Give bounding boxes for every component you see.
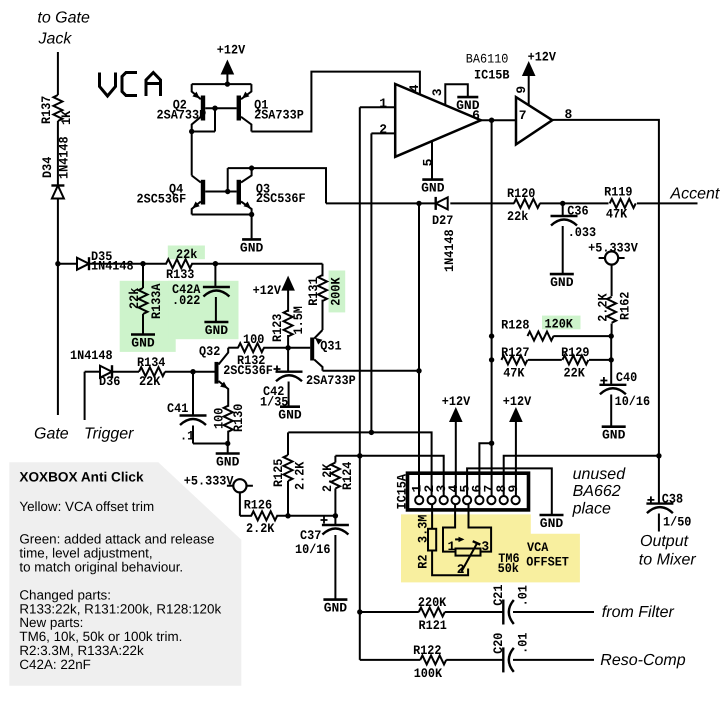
resistor R119 47K	[610, 199, 636, 208]
svg-text:GND: GND	[240, 240, 264, 255]
svg-text:3: 3	[430, 88, 445, 96]
green highlight 120K (R128 value)	[542, 316, 581, 330]
svg-text:R119: R119	[604, 185, 633, 200]
resistor R129 22K	[528, 359, 562, 361]
svg-text:R122: R122	[413, 643, 442, 658]
svg-text:R133:22k, R131:200k, R128:120k: R133:22k, R131:200k, R128:120k	[19, 601, 221, 616]
resistor R127 47K	[501, 355, 527, 364]
svg-text:+12V: +12V	[503, 394, 532, 409]
svg-text:GND: GND	[205, 323, 229, 338]
svg-text:R129: R129	[561, 345, 590, 360]
svg-text:time, level adjustment,: time, level adjustment,	[19, 546, 152, 561]
svg-text:Reso-Comp: Reso-Comp	[600, 652, 685, 669]
svg-text:R133: R133	[166, 267, 195, 282]
capacitor C21 .01	[502, 600, 504, 625]
svg-text:+5.333V: +5.333V	[184, 474, 234, 489]
svg-text:R126: R126	[244, 498, 273, 513]
wire Q31 base node	[288, 347, 310, 349]
VCA logo	[100, 73, 161, 97]
svg-text:2.2K: 2.2K	[293, 461, 308, 490]
resistor R131 200K	[322, 264, 324, 277]
wire op-amp pin 1 net vertical	[359, 107, 361, 660]
green highlight C42A	[168, 281, 238, 339]
resistor R162 2.2K	[607, 297, 616, 323]
pin 8 output wire to output rail	[552, 120, 659, 503]
svg-text:22K: 22K	[139, 374, 160, 389]
svg-text:3.3M: 3.3M	[416, 514, 431, 543]
trimmer wiper arrow	[462, 543, 478, 572]
svg-text:1N4148: 1N4148	[442, 229, 457, 272]
diode D35 1N4148	[77, 258, 89, 270]
svg-text:GND: GND	[540, 516, 564, 531]
wire trimmer terminal 1 to connector pin 4	[443, 504, 456, 552]
svg-text:D36: D36	[99, 374, 120, 389]
wire trimmer terminal 3 to connector pin 5	[469, 504, 492, 552]
svg-text:50k: 50k	[498, 561, 519, 576]
svg-text:1N4148: 1N4148	[91, 259, 134, 274]
svg-text:2SA733P: 2SA733P	[306, 373, 356, 388]
svg-text:R123: R123	[270, 313, 285, 342]
svg-text:1.5M: 1.5M	[291, 306, 306, 335]
svg-text:GND: GND	[131, 336, 155, 351]
svg-text:Jack: Jack	[38, 31, 73, 48]
svg-text:Changed parts:: Changed parts:	[19, 587, 111, 602]
ground R133A	[131, 333, 155, 336]
resistor R126 2.2K	[240, 515, 252, 517]
svg-text:R134: R134	[137, 355, 166, 370]
svg-text:47K: 47K	[606, 207, 627, 222]
pin 5 wire and ground	[431, 141, 433, 179]
svg-text:Gate: Gate	[34, 426, 69, 443]
wire R134 to Q32 base	[165, 371, 215, 373]
svg-text:New parts:: New parts:	[19, 615, 83, 630]
svg-text:.01: .01	[516, 585, 531, 606]
capacitor C40 10/16	[610, 360, 612, 385]
svg-text:OFFSET: OFFSET	[526, 554, 569, 569]
ground C36	[550, 273, 574, 276]
wire connector pin 2 horizontal	[288, 432, 431, 496]
svg-text:XOXBOX Anti Click: XOXBOX Anti Click	[19, 470, 144, 485]
svg-text:2.2K: 2.2K	[596, 293, 611, 322]
svg-text:200K: 200K	[329, 277, 344, 306]
wire Q3 collector to accent line	[228, 168, 326, 203]
wire gate net vertical	[57, 52, 59, 95]
svg-text:C21: C21	[491, 584, 506, 605]
svg-text:Trigger: Trigger	[84, 426, 134, 443]
svg-text:C20: C20	[491, 632, 506, 653]
svg-text:R121: R121	[419, 618, 448, 633]
svg-text:.033: .033	[568, 225, 597, 240]
svg-text:GND: GND	[602, 428, 626, 443]
wire connector pin 3 horizontal	[335, 456, 443, 496]
svg-text:3: 3	[481, 539, 489, 554]
svg-text:9: 9	[514, 86, 529, 94]
svg-text:+12V: +12V	[253, 283, 282, 298]
svg-text:9: 9	[506, 485, 521, 493]
ground connector pin 5	[540, 514, 564, 517]
ground Q3 Q4 emitters	[251, 215, 253, 239]
op-amp U1 BA6110 IC15B	[395, 84, 481, 157]
svg-text:R125: R125	[271, 458, 286, 487]
wire Q3 Q4 emitter rail	[192, 214, 252, 216]
svg-text:1N4148: 1N4148	[57, 136, 72, 179]
pin 1 wire op-amp	[360, 106, 395, 108]
wire connector pin 8 to output rail	[504, 456, 659, 496]
svg-text:1: 1	[448, 539, 456, 554]
wire connector pin 6 to pin 7	[479, 443, 491, 496]
ground C40	[602, 425, 626, 428]
svg-text:120K: 120K	[545, 316, 574, 331]
svg-text:4: 4	[407, 84, 422, 92]
resistor R128 120K	[528, 332, 554, 341]
svg-text:BA6110: BA6110	[466, 52, 509, 67]
svg-text:to Mixer: to Mixer	[639, 552, 697, 569]
svg-text:R124: R124	[340, 461, 355, 490]
svg-text:2SC536F: 2SC536F	[256, 191, 306, 206]
svg-text:R162: R162	[618, 291, 633, 320]
ground C42	[280, 405, 300, 408]
wire Q31 collector	[323, 370, 420, 372]
svg-text:C40: C40	[616, 370, 637, 385]
yellow highlight VCA offset trim area	[401, 514, 580, 582]
wire Q1 Q2 base tie	[205, 107, 236, 109]
resistor R125 2.2K	[287, 432, 289, 455]
svg-text:.01: .01	[516, 632, 531, 653]
transistor Q1 2SA733P	[237, 96, 241, 121]
svg-text:BA662: BA662	[573, 483, 621, 500]
svg-text:R127: R127	[501, 345, 529, 360]
svg-text:D27: D27	[432, 213, 453, 228]
transistor Q3 2SC536F	[237, 180, 241, 205]
svg-text:R130: R130	[231, 403, 246, 432]
svg-text:2.2K: 2.2K	[320, 463, 335, 492]
svg-text:Q31: Q31	[320, 339, 341, 354]
svg-text:2SA733P: 2SA733P	[157, 107, 207, 122]
green highlight R133A	[120, 281, 176, 352]
capacitor C38 1/50	[646, 502, 673, 504]
svg-text:to Gate: to Gate	[37, 10, 90, 27]
wire D36 to R134	[112, 371, 140, 373]
transistor Q4 2SC536F	[201, 180, 205, 205]
note panel background	[9, 462, 241, 686]
pin 6 output wire	[481, 119, 516, 121]
svg-text:C42A: 22nF: C42A: 22nF	[19, 657, 90, 672]
svg-text:place: place	[572, 501, 611, 518]
wire accent to connector pin 1	[418, 203, 420, 496]
resistor R124 2.2K	[334, 456, 336, 463]
svg-text:22k: 22k	[507, 209, 528, 224]
capacitor C37 10/16	[334, 516, 336, 525]
resistor R134 22K	[139, 367, 165, 376]
svg-text:22K: 22K	[564, 365, 585, 380]
svg-text:2.2K: 2.2K	[246, 521, 275, 536]
wire Q3 Q4 base tie	[205, 191, 236, 193]
resistor R123 1.5M	[284, 310, 293, 336]
connector IC15A body	[408, 473, 529, 510]
wire Q1 collector to op-amp pin 4	[251, 72, 420, 132]
svg-text:GND: GND	[324, 601, 348, 616]
resistor R133A 22k	[142, 264, 144, 288]
diode D27 1N4148	[436, 197, 448, 209]
wire op-amp pin 2 net vertical	[370, 133, 372, 432]
svg-text:C37: C37	[300, 528, 321, 543]
svg-text:8: 8	[565, 107, 573, 122]
svg-text:unused: unused	[573, 466, 627, 483]
resistor R122 100K	[420, 655, 446, 664]
svg-text:220K: 220K	[418, 595, 447, 610]
svg-text:100: 100	[243, 332, 264, 347]
capacitor C42A .022	[214, 264, 216, 287]
svg-text:Green: added attack and releas: Green: added attack and release	[19, 532, 214, 547]
wire feedback op-amp output to R128 R127	[491, 120, 493, 500]
resistor R132 100	[228, 347, 238, 349]
pin 3 wire and ground	[445, 84, 468, 105]
svg-text:1/50: 1/50	[663, 515, 692, 530]
svg-text:47K: 47K	[503, 365, 524, 380]
svg-text:22k: 22k	[176, 247, 197, 262]
svg-text:R120: R120	[507, 186, 536, 201]
svg-text:R137: R137	[39, 96, 54, 124]
capacitor C42 1/35	[287, 348, 289, 372]
svg-text:2: 2	[457, 562, 465, 577]
svg-text:GND: GND	[278, 408, 302, 423]
diode D36	[100, 366, 112, 378]
ground C37	[323, 598, 347, 601]
op-amp U2 buffer	[516, 97, 552, 144]
svg-text:from Filter: from Filter	[602, 604, 675, 621]
resistor R130 100	[224, 406, 233, 432]
wire gate to D35 branch	[55, 261, 60, 266]
wire accent line	[326, 202, 419, 204]
svg-text:GND: GND	[216, 455, 240, 470]
wire D35 to R131	[89, 263, 167, 265]
wire C41 R130 join	[193, 443, 228, 445]
resistor R121 220K	[419, 608, 445, 617]
green highlight 200K (R131 value)	[329, 271, 346, 313]
green highlight 22k (R133 value)	[168, 246, 205, 260]
svg-text:Output: Output	[640, 533, 689, 550]
wire Q4 collector	[191, 132, 193, 176]
svg-text:VCA: VCA	[527, 540, 548, 555]
svg-text:22k: 22k	[127, 288, 142, 309]
capacitor C20 .01	[502, 647, 504, 672]
wire emitter rail Q1 Q2	[192, 83, 252, 85]
svg-text:10/16: 10/16	[615, 394, 651, 409]
svg-text:Yellow: VCA offset trim: Yellow: VCA offset trim	[19, 499, 154, 514]
svg-text:+12V: +12V	[217, 43, 246, 58]
transistor Q31 2SA733P	[322, 300, 324, 330]
svg-text:to match original behaviour.: to match original behaviour.	[19, 559, 183, 574]
svg-text:R2: R2	[416, 554, 431, 568]
wire reso-comp line	[360, 659, 421, 661]
svg-text:1K: 1K	[59, 111, 74, 125]
svg-text:C41: C41	[167, 401, 188, 416]
svg-text:Accent: Accent	[669, 186, 719, 203]
capacitor C41 .1	[192, 372, 194, 416]
svg-text:.022: .022	[172, 293, 201, 308]
svg-text:GND: GND	[550, 275, 574, 290]
wire trigger	[84, 372, 86, 420]
svg-text:6: 6	[472, 108, 480, 123]
svg-text:R2:3.3M, R133A:22k: R2:3.3M, R133A:22k	[19, 643, 144, 658]
transistor Q2 2SA733P	[201, 96, 205, 121]
svg-text:IC15A: IC15A	[395, 474, 410, 510]
svg-text:5: 5	[420, 158, 435, 166]
svg-text:100: 100	[212, 408, 227, 429]
svg-text:10/16: 10/16	[295, 542, 331, 557]
wire from filter line	[360, 611, 419, 613]
trimmer adjustment arrow	[455, 538, 462, 540]
svg-text:GND: GND	[421, 181, 445, 196]
capacitor C36 .033	[562, 203, 564, 216]
svg-text:D34: D34	[40, 157, 55, 178]
svg-text:+12V: +12V	[442, 394, 471, 409]
transistor Q32 2SC536F	[215, 362, 219, 384]
resistor R2 3.3M	[431, 504, 433, 529]
ground Q32 emitter	[227, 444, 229, 453]
svg-text:1N4148: 1N4148	[70, 348, 113, 363]
svg-text:R132: R132	[237, 353, 266, 368]
svg-text:C38: C38	[662, 491, 683, 506]
ground C42A	[204, 321, 228, 324]
resistor R120 22k	[514, 199, 540, 208]
diode D34	[52, 186, 64, 199]
svg-text:IC15B: IC15B	[474, 68, 510, 83]
svg-text:7: 7	[519, 108, 527, 123]
svg-text:2SA733P: 2SA733P	[254, 107, 304, 122]
wire R2 to trimmer wiper	[432, 551, 468, 576]
svg-text:100K: 100K	[414, 666, 443, 681]
svg-text:+12V: +12V	[528, 50, 557, 65]
svg-text:C36: C36	[567, 204, 588, 219]
svg-text:2: 2	[379, 122, 387, 137]
svg-text:R128: R128	[501, 318, 530, 333]
resistor R137	[53, 95, 62, 121]
svg-text:2SC536F: 2SC536F	[137, 191, 187, 206]
svg-text:1: 1	[379, 96, 387, 111]
pin 2 wire op-amp	[371, 132, 395, 134]
svg-text:R131: R131	[306, 277, 321, 306]
svg-text:Q32: Q32	[199, 344, 220, 359]
svg-text:TM6, 10k, 50k or 100k trim.: TM6, 10k, 50k or 100k trim.	[19, 629, 182, 644]
wire connector pin 5 to ground	[467, 468, 552, 514]
svg-text:R133A: R133A	[149, 283, 164, 319]
trimmer TM6 50k body	[456, 549, 481, 556]
resistor R133 22k	[166, 259, 192, 268]
